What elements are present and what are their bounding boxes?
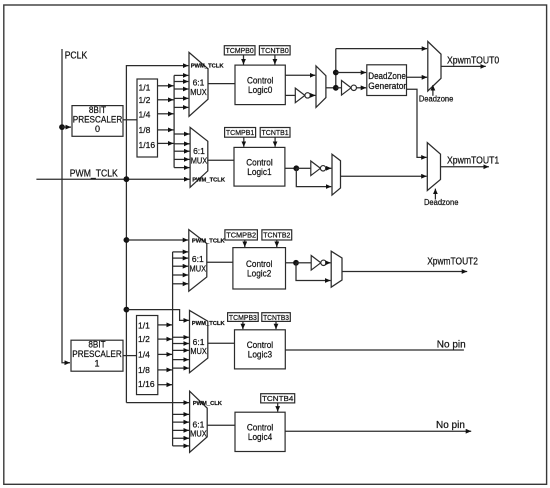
svg-text:MUX: MUX bbox=[190, 263, 207, 273]
wire logic2 out bbox=[286, 262, 297, 264]
wire TCNTB3 into control logic bbox=[275, 321, 277, 329]
wire XpwmTOUT0 output bbox=[441, 65, 486, 67]
svg-text:TCNTB3: TCNTB3 bbox=[263, 313, 289, 322]
wire DeadZone out A to output mux0 bbox=[407, 76, 428, 78]
register TCNTB2 bbox=[262, 230, 292, 240]
svg-text:MUX: MUX bbox=[191, 155, 208, 165]
svg-text:1: 1 bbox=[94, 359, 99, 369]
wire logic0 direct out to mux bbox=[285, 74, 315, 76]
wire Deadzone select into output mux0 bbox=[432, 85, 434, 96]
wire DeadZone out B down to output mux1 bbox=[407, 89, 427, 157]
wire TCNTB2 into control logic bbox=[276, 240, 278, 247]
wire TCMPB1 into control logic bbox=[243, 137, 245, 147]
svg-text:PWM_TCLK: PWM_TCLK bbox=[192, 177, 226, 183]
wire bus taps into mux2 bbox=[173, 251, 189, 253]
svg-text:MUX: MUX bbox=[190, 346, 207, 356]
svg-text:TCMPB2: TCMPB2 bbox=[226, 231, 256, 240]
block Control Logic0 bbox=[235, 65, 285, 105]
svg-text:Logic4: Logic4 bbox=[248, 432, 272, 443]
svg-text:DeadZone: DeadZone bbox=[368, 71, 406, 81]
wire bus to mux3 clock input bbox=[126, 310, 188, 321]
svg-text:PWM_TCLK: PWM_TCLK bbox=[192, 238, 226, 244]
node junction logic2 out bbox=[293, 260, 299, 266]
wire inverter1 to polarity mux1 bbox=[325, 167, 331, 169]
svg-text:MUX: MUX bbox=[190, 429, 207, 439]
block Control Logic4 bbox=[235, 412, 285, 451]
wire to DeadZone input A bbox=[336, 72, 366, 74]
wire mux2 to control logic2 bbox=[207, 261, 233, 263]
wire prescaler0 to divider1 bbox=[123, 119, 137, 121]
svg-text:1/4: 1/4 bbox=[139, 110, 151, 120]
svg-text:XpwmTOUT1: XpwmTOUT1 bbox=[447, 155, 500, 166]
wire logic0 inverted branch bbox=[285, 94, 295, 96]
wire inverter to DeadZone input B bbox=[356, 87, 366, 89]
wire TCNTB1 into control logic bbox=[274, 137, 276, 147]
svg-text:XpwmTOUT2: XpwmTOUT2 bbox=[427, 257, 478, 268]
register TCNTB4 bbox=[261, 394, 295, 403]
svg-text:PWM_CLK: PWM_CLK bbox=[193, 401, 223, 407]
svg-text:8BIT: 8BIT bbox=[88, 340, 106, 350]
svg-text:TCMPB3: TCMPB3 bbox=[229, 313, 257, 322]
wire prescaler1 to divider2 bbox=[123, 355, 137, 357]
wire logic1 direct to polarity mux1 bbox=[296, 168, 331, 186]
register TCMPB3 bbox=[228, 313, 259, 322]
wire bus to mux2 clock input bbox=[126, 239, 188, 241]
wire PWM_TCLK bus vertical + top branch to mux0 bbox=[126, 66, 188, 403]
svg-text:8BIT: 8BIT bbox=[89, 105, 107, 115]
mux 6:1 MUX0 (timer0 clock select) bbox=[189, 52, 208, 116]
wire logic1 out bbox=[285, 167, 296, 169]
svg-text:1/8: 1/8 bbox=[139, 125, 151, 135]
block Control Logic1 bbox=[234, 147, 285, 186]
register TCNTB3 bbox=[262, 313, 291, 322]
wire TCMPB3 into control logic bbox=[242, 321, 244, 329]
wire TCNTB0 into control logic bbox=[274, 55, 276, 65]
wire PCLK vertical with turn into prescaler1 bbox=[62, 49, 70, 363]
svg-text:1/16: 1/16 bbox=[139, 140, 156, 150]
register TCNTB0 bbox=[259, 46, 290, 55]
wire XpwmTOUT2 output bbox=[342, 271, 467, 273]
svg-text:TCNTB4: TCNTB4 bbox=[262, 394, 293, 403]
svg-text:TCNTB0: TCNTB0 bbox=[261, 46, 289, 55]
svg-text:PRESCALER: PRESCALER bbox=[73, 114, 123, 124]
inverter logic2 path bbox=[311, 256, 326, 271]
wire PWM_TCLK horizontal into mux1 bbox=[36, 178, 189, 180]
svg-text:1/16: 1/16 bbox=[138, 379, 155, 389]
wire bus taps into mux3 bbox=[173, 336, 189, 338]
wire divider2 taps to bus bbox=[158, 324, 172, 326]
node junction to deadzone input A bbox=[333, 70, 339, 76]
block DeadZone Generator bbox=[367, 65, 407, 96]
svg-text:1/2: 1/2 bbox=[139, 95, 151, 105]
wire inverter to mux bbox=[310, 94, 316, 96]
wire bus taps into mux0 bbox=[174, 74, 188, 76]
block clock divider 1 (1/1..1/16) bbox=[137, 79, 158, 157]
wire TCMPB0 into control logic bbox=[243, 55, 245, 65]
svg-text:1/2: 1/2 bbox=[138, 334, 150, 344]
wire to inverter1 bbox=[296, 167, 310, 169]
wire vertical riser timer0 bbox=[335, 49, 337, 88]
svg-text:TCNTB2: TCNTB2 bbox=[263, 231, 290, 240]
register TCMPB0 bbox=[224, 46, 255, 55]
svg-text:No pin: No pin bbox=[437, 339, 466, 350]
wire bus bottom to mux4 clock input bbox=[126, 402, 189, 404]
inverter logic0 path bbox=[295, 88, 310, 103]
node junction bus branch to mux3 bbox=[124, 307, 130, 313]
mux output select XpwmTOUT0 bbox=[428, 42, 441, 92]
wire divider1 output bus (vertical) bbox=[173, 75, 175, 167]
block Control Logic2 bbox=[233, 248, 286, 289]
svg-text:XpwmTOUT0: XpwmTOUT0 bbox=[447, 55, 500, 66]
mux 6:1 MUX4 (timer4 clock select) bbox=[190, 391, 208, 452]
register TCMPB2 bbox=[225, 230, 258, 240]
wire bus taps into mux4 bbox=[173, 413, 189, 415]
mux 6:1 MUX1 (timer1 clock select) bbox=[190, 127, 208, 187]
register TCMPB1 bbox=[225, 128, 256, 138]
mux output polarity select timer0 bbox=[316, 66, 326, 108]
wire mux3 to control logic3 bbox=[208, 342, 235, 344]
wire to deadzone inverter bbox=[336, 87, 342, 89]
svg-text:1/1: 1/1 bbox=[138, 321, 150, 331]
svg-text:No pin: No pin bbox=[436, 420, 465, 431]
svg-text:PWM_TCLK: PWM_TCLK bbox=[192, 321, 226, 327]
svg-text:0: 0 bbox=[95, 124, 100, 134]
register TCNTB1 bbox=[260, 128, 290, 138]
svg-text:PRESCALER: PRESCALER bbox=[72, 349, 122, 359]
svg-text:Generator: Generator bbox=[368, 81, 406, 91]
svg-text:TCMPB0: TCMPB0 bbox=[226, 46, 254, 55]
mux 6:1 MUX3 (timer3 clock select) bbox=[190, 310, 208, 372]
svg-text:Logic1: Logic1 bbox=[247, 167, 271, 178]
block 8BIT PRESCALER 0 bbox=[72, 106, 123, 137]
inverter logic1 path bbox=[311, 161, 326, 176]
svg-text:MUX: MUX bbox=[190, 87, 207, 97]
wire XpwmTOUT1 output bbox=[441, 166, 489, 168]
svg-text:Deadzone: Deadzone bbox=[419, 95, 454, 104]
wire bus taps into mux1 bbox=[174, 133, 189, 135]
svg-text:Logic2: Logic2 bbox=[247, 269, 271, 280]
wire polarity mux1 to output mux1 bbox=[341, 175, 427, 177]
wire TCMPB2 into control logic bbox=[244, 240, 246, 247]
wire mux1 to control logic1 bbox=[208, 159, 234, 161]
svg-text:PCLK: PCLK bbox=[65, 51, 88, 62]
wire TCNTB4 into control logic bbox=[277, 403, 279, 412]
wire PCLK to prescaler0 bbox=[62, 126, 71, 128]
node junction logic1 out bbox=[293, 165, 299, 171]
wire divider1 taps to bus bbox=[158, 85, 174, 87]
mux output polarity select timer2 bbox=[331, 251, 342, 287]
block Control Logic3 bbox=[235, 330, 286, 369]
svg-text:TCMPB1: TCMPB1 bbox=[226, 128, 254, 137]
wire polarity mux0 out bbox=[326, 87, 336, 89]
node junction bus branch to mux2 bbox=[124, 237, 130, 243]
mux output select XpwmTOUT1 bbox=[427, 143, 440, 191]
svg-text:1/4: 1/4 bbox=[138, 350, 150, 360]
wire mux4 to control logic4 bbox=[207, 424, 235, 426]
wire Deadzone select into output mux1 bbox=[434, 189, 436, 200]
svg-text:PWM_TCLK: PWM_TCLK bbox=[191, 64, 225, 70]
mux output polarity select timer1 bbox=[332, 154, 341, 195]
svg-text:Deadzone: Deadzone bbox=[424, 198, 459, 207]
wire divider2 output bus (vertical) bbox=[172, 252, 174, 446]
svg-text:PWM_TCLK: PWM_TCLK bbox=[70, 168, 118, 179]
mux 6:1 MUX2 (timer2 clock select) bbox=[189, 230, 207, 292]
wire to inverter2 bbox=[296, 262, 311, 264]
svg-text:TCNTB1: TCNTB1 bbox=[262, 128, 289, 137]
wire logic4 output (no pin) bbox=[285, 430, 471, 432]
wire logic3 output (no pin) bbox=[285, 349, 464, 351]
block clock divider 2 (1/1..1/16) bbox=[137, 316, 158, 395]
svg-text:1/1: 1/1 bbox=[139, 83, 151, 93]
inverter deadzone path bbox=[342, 81, 357, 96]
wire mux0 to control logic0 bbox=[208, 83, 235, 85]
wire inverter to polarity mux2 bbox=[326, 262, 331, 264]
svg-text:1/8: 1/8 bbox=[138, 365, 150, 375]
node junction bus/PWM_TCLK bbox=[124, 176, 130, 182]
node junction on PCLK at prescaler0 input bbox=[59, 124, 65, 130]
svg-text:Logic0: Logic0 bbox=[248, 85, 272, 96]
wire riser top to output mux0 input A bbox=[336, 48, 427, 50]
svg-text:Logic3: Logic3 bbox=[248, 350, 272, 361]
wire logic2 direct to polarity mux2 bbox=[296, 263, 331, 281]
node junction to deadzone inverter bbox=[333, 85, 339, 91]
block 8BIT PRESCALER 1 bbox=[71, 340, 123, 371]
